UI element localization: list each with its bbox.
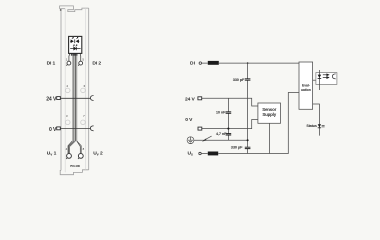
wire fan to DI terminals <box>69 53 81 61</box>
svg-text:uation: uation <box>301 88 311 92</box>
terminal Uv1 <box>67 154 72 159</box>
wire bundle down module center <box>72 53 77 141</box>
svg-text:4: 4 <box>66 147 68 151</box>
0V jumper wire <box>60 128 90 130</box>
svg-text:1: 1 <box>66 58 68 62</box>
wire bundle root under LED box <box>71 53 78 55</box>
DI input terminal <box>199 62 201 64</box>
functional earth symbol <box>187 137 194 144</box>
svg-text:Uv 1: Uv 1 <box>47 151 57 157</box>
DI status LED light guide arc <box>332 74 335 79</box>
wire DI line <box>202 62 300 64</box>
0V plug (schematic) <box>198 127 202 130</box>
terminal Uv2 <box>78 154 83 159</box>
capacitor C1 330pF <box>245 79 251 80</box>
svg-text:330 pF: 330 pF <box>233 77 245 82</box>
svg-text:Uv 2: Uv 2 <box>93 151 103 157</box>
svg-text:8: 8 <box>83 147 85 151</box>
svg-text:2: 2 <box>67 84 69 88</box>
wire fan to Uv terminals <box>68 141 81 153</box>
svg-text:0 V: 0 V <box>185 117 193 123</box>
wire sensor supply output <box>269 123 271 153</box>
svg-text:Sensor: Sensor <box>262 107 276 112</box>
24V plug (schematic) <box>198 97 202 100</box>
svg-text:24 V: 24 V <box>46 96 57 102</box>
spare contact row 3 left <box>65 120 70 125</box>
junction dot earth/DI branch <box>247 139 249 141</box>
0V jumper contact arc <box>90 126 93 131</box>
wire DI branch vertical <box>247 63 249 153</box>
svg-text:24 V: 24 V <box>185 97 195 103</box>
earth connection arrow <box>205 136 211 140</box>
spare contact row 3 right <box>81 120 86 125</box>
24V jumper wire <box>60 97 90 99</box>
svg-text:3: 3 <box>66 114 68 118</box>
junction dot DI branch <box>247 62 249 64</box>
24V jumper contact arc <box>90 96 93 101</box>
svg-text:Supply: Supply <box>262 112 276 117</box>
svg-text:330 pF: 330 pF <box>231 145 243 150</box>
wire evaluation to status LED <box>313 104 320 136</box>
spare contact row 2 right <box>81 88 86 93</box>
DI status LED diode <box>318 75 322 78</box>
0V plug contact <box>57 127 61 130</box>
evaluation box U1 <box>299 62 313 109</box>
resistor R2 <box>208 152 218 156</box>
module latch square <box>60 9 62 10</box>
wire 0V line <box>202 120 258 129</box>
DI status LED emission arrows <box>323 74 329 79</box>
DI status LED lead <box>318 70 320 90</box>
wire Us line <box>201 93 299 154</box>
svg-text:DI 1: DI 1 <box>47 60 56 66</box>
svg-text:4,7 nF: 4,7 nF <box>216 131 227 136</box>
module inner side walls <box>65 8 86 172</box>
capacitor C4 330pF <box>245 147 251 148</box>
DI status LED box <box>316 73 337 85</box>
capacitor C2 10nF <box>226 112 232 113</box>
junction dot 0V/filter <box>227 128 229 130</box>
LED diode symbol (lower) <box>70 45 80 50</box>
wire filter branch vertical <box>227 98 229 140</box>
status LED emission arrows <box>322 125 325 127</box>
terminal DI2 <box>79 61 83 65</box>
svg-text:7: 7 <box>83 114 85 118</box>
svg-text:DI: DI <box>190 60 196 66</box>
sensor supply box U2 <box>258 103 281 123</box>
svg-text:750-400: 750-400 <box>70 164 80 168</box>
LED indicator box <box>69 36 82 53</box>
24V plug contact <box>57 97 61 100</box>
svg-text:Status: Status <box>306 124 316 128</box>
capacitor C3 4.7nF <box>226 134 232 135</box>
svg-text:5: 5 <box>82 58 84 62</box>
svg-text:DI 2: DI 2 <box>92 60 101 66</box>
svg-text:0 V: 0 V <box>49 127 57 133</box>
wire evaluation to DI LED <box>313 79 320 81</box>
Us input terminal <box>199 152 201 154</box>
svg-text:Us: Us <box>188 151 194 157</box>
svg-text:Eval-: Eval- <box>302 83 311 87</box>
LED pair symbol (channel status) <box>70 37 79 43</box>
wire earth line <box>194 139 248 141</box>
spare contact row 2 left <box>65 88 70 93</box>
terminal DI1 <box>67 61 71 65</box>
svg-text:6: 6 <box>84 84 86 88</box>
resistor R1 <box>208 61 219 65</box>
status LED diode <box>318 124 321 127</box>
svg-text:10 nF: 10 nF <box>216 109 226 114</box>
module body outline <box>60 6 89 175</box>
wire 24V line <box>202 98 258 106</box>
